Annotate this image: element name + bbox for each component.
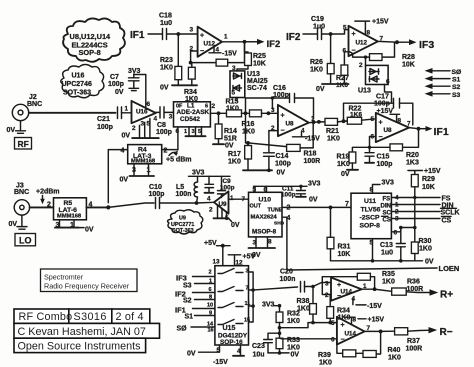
attenuator R5 LAT-6 bbox=[47, 198, 93, 229]
wire U8a pin2 loop bbox=[269, 130, 278, 132]
ground at J2 bbox=[7, 121, 26, 134]
svg-text:U13: U13 bbox=[247, 71, 260, 78]
wire U9 tip to C10 node bbox=[197, 201, 215, 204]
resistor R38 bbox=[297, 287, 317, 325]
capacitor C11 bbox=[281, 186, 318, 204]
svg-text:8: 8 bbox=[398, 118, 402, 125]
svg-text:1u0: 1u0 bbox=[313, 24, 325, 31]
svg-text:100R: 100R bbox=[406, 346, 423, 353]
svg-text:FS: FS bbox=[383, 197, 391, 203]
svg-text:IF3: IF3 bbox=[419, 39, 434, 51]
svg-text:R14: R14 bbox=[224, 128, 237, 135]
svg-text:1K0: 1K0 bbox=[242, 129, 255, 136]
net S3 to U15 pin1 bbox=[183, 279, 215, 290]
svg-text:U8: U8 bbox=[286, 121, 295, 128]
svg-text:U11: U11 bbox=[364, 198, 376, 205]
svg-text:16: 16 bbox=[208, 328, 214, 334]
note U13 MAX125 SC-74 bbox=[247, 71, 268, 92]
svg-text:2 of 4: 2 of 4 bbox=[116, 311, 144, 323]
svg-text:6: 6 bbox=[394, 230, 398, 237]
ground R4 pins 3,1 bbox=[120, 164, 155, 184]
svg-text:C18: C18 bbox=[159, 13, 172, 20]
svg-text:-15V: -15V bbox=[213, 359, 228, 366]
svg-text:−: − bbox=[200, 48, 204, 55]
svg-text:MAX2624: MAX2624 bbox=[251, 215, 278, 221]
3V3 rail over U9 bbox=[189, 170, 231, 177]
wire U8b output to IF1 bbox=[409, 128, 424, 129]
svg-text:R23: R23 bbox=[160, 57, 173, 64]
resistor R34 bbox=[184, 63, 198, 103]
3V3 at R32 bbox=[262, 302, 281, 309]
svg-text:SØ: SØ bbox=[452, 69, 462, 76]
svg-text:1K0: 1K0 bbox=[287, 345, 300, 352]
svg-text:U14: U14 bbox=[345, 331, 357, 338]
resistor R23 bbox=[160, 34, 182, 85]
resistor R17 bbox=[228, 113, 252, 170]
svg-text:CD542: CD542 bbox=[180, 116, 200, 123]
svg-text:+: + bbox=[341, 322, 345, 329]
wire R4 pin2 to L1 pin6 bbox=[162, 149, 178, 151]
svg-text:3V3: 3V3 bbox=[262, 302, 275, 309]
svg-text:C14: C14 bbox=[276, 153, 289, 160]
svg-text:+2dBm: +2dBm bbox=[36, 189, 60, 196]
svg-text:R−: R− bbox=[440, 327, 453, 338]
svg-text:LO: LO bbox=[19, 236, 32, 246]
svg-text:1K3: 1K3 bbox=[406, 160, 419, 167]
svg-text:R29: R29 bbox=[422, 176, 435, 183]
U10 bottom pins 3,8 to 0V bbox=[249, 237, 276, 259]
title block row3 Open Source Instruments bbox=[14, 338, 146, 352]
-15V at U15 pin4 bbox=[213, 345, 244, 366]
svg-text:0V: 0V bbox=[341, 171, 350, 178]
svg-text:RF Combo: RF Combo bbox=[19, 311, 73, 323]
svg-text:5: 5 bbox=[232, 90, 236, 97]
svg-text:R36: R36 bbox=[407, 279, 420, 286]
svg-text:100p: 100p bbox=[374, 101, 390, 108]
svg-text:C20: C20 bbox=[280, 269, 293, 276]
svg-text:0V: 0V bbox=[85, 227, 94, 234]
wire R4 pin4 to LO junction bbox=[108, 150, 127, 203]
signal arrows S0-S3 bbox=[425, 68, 462, 99]
resistor R16 bbox=[242, 110, 271, 136]
svg-text:2: 2 bbox=[47, 202, 51, 209]
wire J3 to R5 bbox=[30, 206, 54, 208]
node IF3 junction bbox=[395, 40, 399, 44]
svg-text:100n: 100n bbox=[280, 276, 296, 283]
node junction C18/R23 bbox=[176, 32, 180, 36]
U15 right pins common bus bbox=[244, 269, 298, 324]
svg-text:1K0: 1K0 bbox=[382, 279, 395, 286]
ground R5 pins 3,1 bbox=[55, 220, 94, 234]
wire node to U14b pin5 bbox=[280, 323, 337, 328]
svg-text:MAI25: MAI25 bbox=[247, 78, 268, 85]
svg-text:SC-74: SC-74 bbox=[247, 85, 267, 92]
svg-text:0V: 0V bbox=[9, 221, 18, 228]
svg-text:LOEN: LOEN bbox=[439, 264, 460, 273]
svg-text:SOP-8: SOP-8 bbox=[360, 223, 381, 230]
svg-text:1K0: 1K0 bbox=[327, 136, 340, 143]
svg-text:R37: R37 bbox=[407, 338, 420, 345]
svg-text:7: 7 bbox=[345, 201, 349, 208]
svg-text:BNC: BNC bbox=[14, 189, 29, 196]
svg-text:+5V: +5V bbox=[204, 240, 217, 247]
wire U12 pin2 stub bbox=[191, 51, 198, 63]
svg-text:S3016: S3016 bbox=[74, 311, 107, 323]
resistor R28 feedback bbox=[350, 42, 415, 68]
wire J2 to C21 bbox=[29, 112, 116, 114]
svg-text:100n: 100n bbox=[176, 191, 192, 198]
svg-text:3: 3 bbox=[141, 121, 145, 128]
svg-text:MMM168: MMM168 bbox=[131, 159, 156, 165]
note +5dBm bbox=[166, 151, 191, 164]
svg-text:100R: 100R bbox=[304, 158, 321, 165]
svg-text:100p: 100p bbox=[108, 81, 124, 88]
VCO U10 MAX2624 bbox=[249, 192, 285, 237]
svg-text:R26: R26 bbox=[310, 59, 323, 66]
op-amp U12 (second half) bbox=[343, 25, 384, 57]
svg-text:0V: 0V bbox=[115, 89, 124, 96]
svg-text:0V: 0V bbox=[160, 85, 169, 92]
svg-text:+5V: +5V bbox=[243, 254, 256, 261]
svg-text:1K0: 1K0 bbox=[310, 67, 323, 74]
svg-text:+15V: +15V bbox=[424, 168, 441, 175]
svg-text:10K: 10K bbox=[253, 61, 266, 68]
wire U12 output bbox=[222, 41, 258, 43]
wire U10 TUNE pin2 to U11 pin7 bbox=[282, 201, 351, 212]
svg-text:R40: R40 bbox=[388, 347, 401, 354]
svg-text:4: 4 bbox=[207, 196, 211, 203]
svg-text:5: 5 bbox=[198, 129, 201, 135]
svg-text:0V: 0V bbox=[122, 133, 131, 140]
svg-text:U13: U13 bbox=[358, 88, 371, 95]
svg-text:1K0: 1K0 bbox=[337, 161, 350, 168]
svg-text:R33: R33 bbox=[287, 337, 300, 344]
svg-text:1K0: 1K0 bbox=[388, 355, 401, 362]
ground U9 pins bbox=[214, 205, 240, 229]
svg-text:4: 4 bbox=[121, 148, 125, 155]
connector J3 BNC bbox=[14, 183, 30, 216]
node label RF bbox=[15, 138, 32, 150]
+5V supply to U15 pin13 bbox=[204, 240, 230, 266]
svg-text:U14: U14 bbox=[341, 289, 353, 296]
svg-text:C21: C21 bbox=[97, 116, 110, 123]
wire U14a output bbox=[362, 289, 392, 291]
svg-text:5: 5 bbox=[343, 25, 347, 32]
svg-text:R20: R20 bbox=[406, 152, 419, 159]
ground 0V line bbox=[331, 259, 434, 266]
node junction C19/R26 bbox=[329, 32, 333, 36]
net IF1 to U15 pin10 bbox=[175, 303, 215, 315]
capacitor C13 bbox=[380, 228, 405, 261]
svg-text:100p: 100p bbox=[149, 191, 165, 198]
+15V at U14b pin8 bbox=[344, 317, 384, 324]
capacitor C20 bbox=[280, 269, 332, 293]
resistor R30 bbox=[411, 238, 432, 261]
svg-text:R19: R19 bbox=[337, 154, 350, 161]
svg-text:0V: 0V bbox=[231, 222, 240, 229]
node output junction bbox=[243, 40, 247, 44]
svg-text:S1: S1 bbox=[452, 77, 461, 84]
-15V at U14a pin4 bbox=[352, 296, 383, 311]
resistor R15 bbox=[219, 99, 248, 117]
svg-text:U16: U16 bbox=[136, 109, 148, 116]
svg-text:5: 5 bbox=[331, 320, 335, 327]
wire IF2 to C19 bbox=[303, 33, 318, 35]
resistor R22 feedback top loop bbox=[344, 94, 413, 126]
resistor R27 bbox=[336, 52, 349, 89]
resistor R32 bbox=[276, 306, 300, 335]
capacitor C14 bbox=[264, 131, 291, 171]
svg-text:2: 2 bbox=[325, 292, 329, 299]
capacitor C19 bbox=[311, 16, 331, 40]
svg-text:2: 2 bbox=[132, 125, 136, 132]
net IF3 to U15 pin2 bbox=[176, 270, 215, 283]
svg-text:Radio Frequency Receiver: Radio Frequency Receiver bbox=[44, 282, 130, 291]
svg-text:U9: U9 bbox=[219, 201, 228, 208]
capacitor C8 bbox=[156, 107, 174, 136]
svg-text:+: + bbox=[200, 33, 204, 40]
capacitor C23 bbox=[252, 333, 280, 358]
svg-text:RF: RF bbox=[18, 139, 29, 149]
svg-text:SOT-363: SOT-363 bbox=[172, 228, 194, 234]
svg-text:6: 6 bbox=[386, 79, 390, 86]
wire U12b output to IF3 bbox=[378, 40, 402, 43]
svg-text:+: + bbox=[379, 120, 383, 127]
cloud note U16 UPC2746 SOT-363 bbox=[61, 65, 104, 98]
svg-text:10K: 10K bbox=[402, 62, 415, 69]
svg-text:Open Source Instruments: Open Source Instruments bbox=[18, 340, 142, 352]
svg-text:3: 3 bbox=[190, 27, 194, 34]
svg-text:1K0: 1K0 bbox=[287, 318, 300, 325]
svg-text:TUNE: TUNE bbox=[268, 208, 283, 214]
svg-text:1K0: 1K0 bbox=[185, 96, 198, 103]
svg-text:3: 3 bbox=[169, 113, 173, 120]
svg-text:FS: FS bbox=[442, 196, 451, 203]
svg-text:MSOP-8: MSOP-8 bbox=[252, 229, 277, 236]
wire U10 pin4 to LOEN bbox=[282, 215, 437, 270]
title note box Spectrometer bbox=[41, 269, 138, 292]
svg-text:1K0: 1K0 bbox=[228, 159, 241, 166]
resistor R37 to R- bbox=[395, 327, 453, 353]
ground at J3 bbox=[9, 215, 28, 229]
svg-text:6: 6 bbox=[147, 101, 151, 108]
svg-text:100p: 100p bbox=[156, 129, 172, 136]
net SCLK output bbox=[391, 208, 459, 216]
op-amp U8 (first half) bbox=[271, 105, 315, 136]
svg-text:S1: S1 bbox=[185, 314, 194, 321]
inductor L5 bbox=[176, 176, 198, 203]
svg-text:J2: J2 bbox=[29, 94, 37, 101]
wire IF1 to C18 bbox=[148, 33, 162, 35]
svg-text:SØ: SØ bbox=[177, 326, 188, 333]
resistor R19 bbox=[337, 147, 370, 178]
svg-text:51R: 51R bbox=[224, 136, 237, 143]
wire L1 pin6 down to R4 LO wire bbox=[177, 127, 179, 150]
switch 4 inside U15 bbox=[218, 320, 243, 325]
svg-text:2: 2 bbox=[212, 103, 216, 110]
svg-text:0V: 0V bbox=[187, 351, 196, 358]
svg-text:8: 8 bbox=[268, 239, 272, 246]
svg-text:C23: C23 bbox=[252, 343, 265, 350]
wire U11 pin6 node bbox=[391, 198, 416, 243]
svg-text:R15: R15 bbox=[226, 99, 239, 106]
net S1 to U15 pin9 bbox=[185, 311, 215, 321]
svg-text:-15V: -15V bbox=[367, 303, 382, 310]
ground bar 0V under R26/R27 bbox=[316, 84, 349, 93]
U11 pin5 to 0V line bbox=[370, 239, 374, 261]
amplifier U16 bbox=[122, 101, 159, 140]
svg-text:13: 13 bbox=[213, 259, 221, 266]
title block row1 RF Combo S3016 2 of 4 bbox=[14, 309, 150, 323]
op-amp U12 (first half) bbox=[190, 27, 229, 57]
svg-text:+: + bbox=[281, 113, 285, 120]
+15V and resistor R29 bbox=[408, 168, 441, 198]
svg-text:BNC: BNC bbox=[27, 101, 42, 108]
DAC U11 TLV5618 bbox=[351, 193, 392, 239]
svg-text:+15V: +15V bbox=[368, 317, 385, 324]
+15V at U12b pin8 bbox=[355, 19, 389, 37]
net FS output bbox=[391, 195, 450, 203]
svg-text:R25: R25 bbox=[253, 53, 266, 60]
node IF2 output arrow bbox=[247, 39, 281, 50]
svg-text:8: 8 bbox=[209, 295, 212, 301]
svg-text:7: 7 bbox=[407, 121, 411, 128]
svg-text:SOT-363: SOT-363 bbox=[63, 90, 91, 97]
wire pin3 junction to U8a bbox=[268, 112, 278, 114]
svg-text:UPC2746: UPC2746 bbox=[62, 81, 92, 88]
svg-text:C7: C7 bbox=[110, 74, 119, 81]
U10 top pins 5,6 bbox=[253, 185, 308, 194]
svg-text:Spectromter: Spectromter bbox=[44, 273, 84, 282]
svg-text:100p: 100p bbox=[275, 161, 291, 168]
svg-text:ADE-2ASK: ADE-2ASK bbox=[177, 109, 210, 116]
svg-text:L5: L5 bbox=[176, 184, 184, 191]
ground bar 0V under R23/R34 bbox=[160, 85, 197, 92]
resistor R24 feedback U12a bbox=[191, 42, 245, 66]
svg-text:2: 2 bbox=[359, 62, 363, 69]
svg-text:S2: S2 bbox=[183, 298, 192, 305]
svg-text:−: − bbox=[281, 128, 285, 135]
svg-text:IF1: IF1 bbox=[130, 30, 145, 41]
svg-text:R38: R38 bbox=[297, 298, 310, 305]
svg-text:R31: R31 bbox=[338, 244, 351, 251]
svg-text:1K0: 1K0 bbox=[319, 360, 332, 367]
svg-text:SHD: SHD bbox=[274, 221, 285, 227]
resistors R39 R40 feedback chain bbox=[318, 331, 401, 366]
svg-text:U9: U9 bbox=[179, 216, 186, 222]
svg-text:100p: 100p bbox=[377, 161, 393, 168]
svg-text:3V3: 3V3 bbox=[308, 181, 321, 188]
svg-text:DIN: DIN bbox=[381, 204, 391, 210]
svg-text:0V: 0V bbox=[120, 177, 129, 184]
svg-text:C17: C17 bbox=[376, 94, 389, 101]
svg-text:+5 dBm: +5 dBm bbox=[166, 157, 191, 164]
net S2 to U15 pin8 bbox=[183, 295, 215, 305]
svg-text:R28: R28 bbox=[402, 54, 415, 61]
svg-text:2: 2 bbox=[164, 148, 168, 155]
svg-text:2: 2 bbox=[209, 270, 212, 276]
svg-text:+: + bbox=[352, 31, 356, 38]
svg-text:6: 6 bbox=[331, 337, 335, 344]
wire U14b pin6 bbox=[281, 338, 337, 340]
svg-text:U10: U10 bbox=[259, 197, 272, 204]
svg-text:OUT: OUT bbox=[250, 204, 262, 210]
node IF1 output arrow bbox=[424, 126, 449, 138]
ground U15 pin5 bbox=[187, 345, 221, 358]
svg-text:10u: 10u bbox=[253, 352, 265, 359]
svg-text:U16: U16 bbox=[72, 73, 85, 80]
title block row2 author bbox=[14, 323, 160, 338]
svg-text:1K0: 1K0 bbox=[160, 65, 173, 72]
svg-text:S2: S2 bbox=[452, 84, 461, 91]
svg-text:R30: R30 bbox=[419, 238, 432, 245]
connector J2 BNC bbox=[12, 94, 42, 121]
svg-text:C10: C10 bbox=[149, 184, 162, 191]
wire to U12 pin5 bbox=[331, 30, 349, 34]
switch 2 inside U15 bbox=[218, 287, 243, 292]
svg-text:8: 8 bbox=[367, 30, 371, 37]
svg-text:R17: R17 bbox=[228, 151, 241, 158]
svg-text:0V: 0V bbox=[309, 197, 318, 204]
svg-text:1: 1 bbox=[224, 34, 228, 41]
3V3 at U11 pin8 bbox=[370, 180, 395, 194]
svg-text:U12: U12 bbox=[356, 40, 368, 47]
svg-text:6: 6 bbox=[209, 287, 212, 293]
svg-text:R16: R16 bbox=[242, 121, 255, 128]
svg-text:100p: 100p bbox=[281, 192, 296, 199]
svg-text:SCLK: SCLK bbox=[441, 210, 460, 217]
resistor R21 bbox=[325, 118, 348, 142]
svg-text:IF1: IF1 bbox=[434, 126, 449, 138]
svg-text:R21: R21 bbox=[326, 128, 339, 135]
resistor R22 body bbox=[344, 117, 376, 124]
resistor R14 bbox=[213, 113, 237, 149]
svg-text:R35: R35 bbox=[382, 271, 395, 278]
svg-text:IF2: IF2 bbox=[286, 32, 301, 43]
svg-text:C Kevan Hashemi, JAN 07: C Kevan Hashemi, JAN 07 bbox=[18, 326, 146, 338]
resistor R20 feedback bbox=[370, 129, 419, 167]
net DIN output bbox=[391, 202, 453, 210]
svg-text:+15V: +15V bbox=[372, 19, 389, 26]
svg-text:100p: 100p bbox=[97, 124, 113, 131]
svg-text:0V: 0V bbox=[225, 143, 234, 150]
resistor R34 interstage bbox=[327, 295, 351, 325]
svg-text:R39: R39 bbox=[318, 352, 331, 359]
svg-text:TLV56: TLV56 bbox=[361, 207, 381, 214]
svg-text:SOP-8: SOP-8 bbox=[79, 48, 101, 57]
net CS output bbox=[391, 216, 451, 225]
svg-text:1: 1 bbox=[209, 279, 212, 285]
cloud note U8,U12,U14 EL2244CS SOP-8 bbox=[63, 18, 125, 61]
svg-text:−: − bbox=[379, 134, 383, 141]
net IF2 to U15 pin6 bbox=[175, 287, 215, 299]
svg-text:9: 9 bbox=[209, 311, 212, 317]
ground 0V line under R33/C23 bbox=[268, 351, 299, 358]
svg-text:5: 5 bbox=[371, 116, 375, 123]
wire LO node to C10 bbox=[108, 203, 154, 207]
attenuator R4 LAT-3 bbox=[121, 145, 168, 174]
svg-text:2: 2 bbox=[209, 207, 213, 214]
svg-text:0V: 0V bbox=[425, 259, 434, 266]
capacitor C18 bbox=[159, 13, 178, 40]
svg-text:0V: 0V bbox=[316, 86, 325, 93]
resistor R26 bbox=[310, 34, 334, 84]
resistor R18 bbox=[248, 122, 320, 165]
resistor R31 bbox=[327, 207, 350, 260]
svg-text:R18: R18 bbox=[304, 151, 317, 158]
wire U8a output bbox=[309, 121, 325, 124]
svg-text:U15: U15 bbox=[223, 325, 236, 332]
